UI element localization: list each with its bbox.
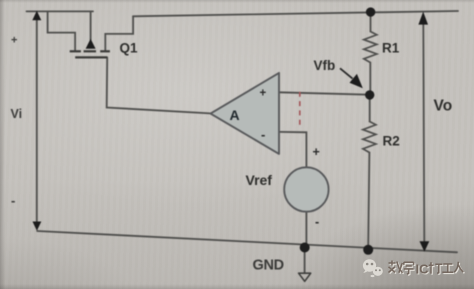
ground symbol (open triangle) [299,273,311,281]
wire Vi input vertical line [36,16,38,226]
watermark text emboss highlight layer [390,262,465,276]
transistor Q1 drain terminal bar [100,50,110,52]
watermark text 数字IC打工人 (drawn strokes) [389,261,464,275]
svg-text:IC: IC [416,262,430,277]
wire R2 top stub [369,99,371,122]
wire top rail right (output rail to R1/Vo) [133,11,458,16]
wire op-amp minus input to Vref top [279,132,306,168]
wire R1 top stub [370,13,372,32]
wire Q1 drain jog to top right rail [105,16,133,50]
wire op-amp plus input to Vfb node [279,92,369,94]
wire R2 bottom stub to ground rail [368,153,369,248]
arrow Vo top (up) [418,12,428,25]
wire Q1 body connection from top rail [90,11,92,40]
wire Vo vertical line [423,20,424,244]
node dot: R2 / ground rail junction [363,245,373,255]
arrow Vo bottom (down) [420,241,430,252]
wire op-amp output to Q1 gate [107,57,210,113]
resistor R1 zigzag [364,32,377,63]
wire ground rail [37,231,457,252]
transistor Q1 body terminal bar [84,50,96,52]
arrow Vi bottom (down) [33,222,42,231]
op-amp A triangle [211,73,280,154]
wire Q1 source jog from top rail [48,11,76,50]
wire Vref bottom to ground rail [305,212,307,248]
arrow Vi top (up) [32,11,41,20]
watermark logo bubbles [363,259,383,277]
Vref source circle [284,167,328,211]
wire R1 bottom stub to Vfb node [369,63,371,92]
wire top rail left (Vi supply) [27,10,94,12]
node dot: Vref / ground rail junction [300,243,310,253]
transistor Q1 gate plate [75,56,107,58]
node dot: Vfb node (R1/R2/+input) [365,90,374,99]
transistor Q1 body arrow (points up) [86,39,96,49]
dashed comparison line (dark red) [299,92,301,127]
resistor R2 zigzag [363,122,376,153]
node dot: top rail / R1 junction [366,7,375,16]
wire ground stub below rail [304,249,306,273]
transistor Q1 source terminal bar [70,50,81,52]
Vfb pointer arrow [340,68,353,78]
